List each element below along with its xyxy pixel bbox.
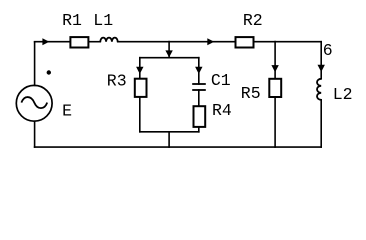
current arrow on top rail before R2 — [207, 38, 214, 45]
resistor R3 box — [135, 79, 147, 97]
current arrow above C1 — [195, 67, 202, 74]
wire drop from bottom connector middle to bottom rail — [168, 132, 170, 147]
wire top rail segment R2 to R5 branch node — [254, 41, 275, 43]
svg-text:R3: R3 — [107, 72, 127, 91]
current arrow above R3 — [136, 67, 143, 74]
wire right vertical upper (node 6 to L2) — [320, 42, 322, 79]
AC source E sine wave — [21, 97, 47, 108]
wire left vertical from source E up to top rail — [34, 42, 36, 85]
resistor R1 box — [70, 37, 88, 47]
wire top rail segment R1 to L1 — [89, 41, 100, 43]
wire R5 branch lower — [274, 97, 276, 147]
current arrow above R5 — [271, 65, 278, 72]
wire junction drop from top rail at x=168 — [168, 42, 170, 58]
svg-text:R5: R5 — [241, 84, 261, 103]
wire C1 to R4 — [198, 90, 200, 106]
AC source E circle — [16, 85, 52, 121]
capacitor C1 upper plate — [192, 83, 206, 85]
wire top rail segment node to R2 — [169, 41, 235, 43]
capacitor C1 lower plate — [192, 89, 206, 91]
wire R3 branch upper — [139, 58, 141, 79]
svg-text:E: E — [62, 101, 72, 120]
wire left vertical from source E bottom to bottom rail — [34, 121, 36, 147]
current arrow pointing down at x=168 junction — [165, 50, 172, 57]
wire top rail segment L1 to node at x=168 — [118, 41, 169, 43]
wire top rail segment from left corner to R1 — [35, 41, 70, 43]
svg-text:6: 6 — [323, 41, 333, 60]
wire R3 branch lower — [139, 97, 141, 132]
svg-text:R2: R2 — [243, 11, 263, 30]
wire upper connector between R3 and C1 branches — [140, 57, 199, 59]
current arrow on top rail after left corner — [42, 38, 49, 45]
wire bottom rail — [35, 146, 322, 148]
wire bottom connector between R3 and R4 branches — [140, 131, 199, 133]
current arrow above L2 — [318, 65, 325, 72]
wire R5 branch upper — [274, 42, 276, 79]
svg-text:R4: R4 — [212, 101, 232, 120]
resistor R5 box — [269, 79, 281, 97]
wire top rail segment R5 node to right corner node 6 — [275, 41, 321, 43]
wire right vertical lower (L2 to bottom rail) — [320, 100, 322, 147]
svg-text:L2: L2 — [333, 85, 353, 104]
wire C1 branch upper — [198, 58, 200, 84]
svg-text:L1: L1 — [93, 11, 113, 30]
polarity dot of source E — [47, 70, 51, 74]
resistor R2 box — [236, 37, 254, 47]
svg-text:C1: C1 — [211, 71, 231, 90]
inductor L2 coil — [317, 79, 321, 100]
resistor R4 box — [194, 106, 206, 127]
wire R4 to bottom connector — [198, 127, 200, 132]
svg-text:R1: R1 — [62, 11, 82, 30]
inductor L1 coil — [100, 38, 117, 42]
